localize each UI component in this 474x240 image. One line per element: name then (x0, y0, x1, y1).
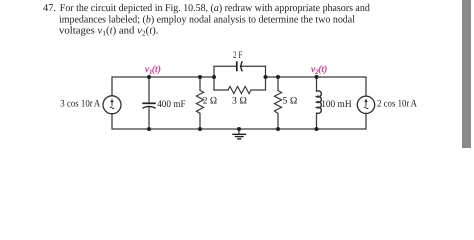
svg-text:2 F: 2 F (233, 50, 243, 61)
current source I2 (2 cos 10t A) (357, 96, 374, 113)
wire top right segment (266, 77, 367, 96)
node dot top of 2 ohm (198, 75, 202, 79)
wire 2-ohm branch (199, 77, 201, 129)
node dot bottom 2 ohm (198, 127, 202, 131)
svg-text:3 Ω: 3 Ω (232, 96, 248, 107)
wire top left segment (112, 77, 214, 96)
wire bottom rail (112, 113, 366, 129)
node dot ground (237, 127, 241, 131)
svg-text:2 Ω: 2 Ω (203, 96, 218, 107)
node dot bottom 400mF (147, 127, 151, 131)
node dot box left (212, 75, 216, 79)
current source I1 (3 cos 10t A) (103, 96, 121, 114)
gray scrollbar band at right (462, 0, 472, 148)
svg-text:2 cos 10t A: 2 cos 10t A (377, 99, 418, 110)
node dot box right (264, 75, 268, 79)
capacitor C1 400 mF (142, 103, 156, 108)
resistor R1 2 ohm (196, 90, 203, 113)
svg-text:100 mH: 100 mH (321, 99, 351, 110)
node label v2(t) (311, 65, 327, 74)
wire parallel-box left edge (213, 66, 215, 90)
svg-text:5 Ω: 5 Ω (283, 96, 298, 107)
node dot bottom 100mH (315, 127, 319, 131)
svg-text:For the circuit depicted in Fi: For the circuit depicted in Fig. 10.58, … (60, 3, 371, 14)
resistor R3 5 ohm (274, 91, 281, 114)
svg-text:47.: 47. (43, 3, 56, 14)
wire parallel-box top branch (214, 65, 266, 67)
node dot v1 (147, 75, 151, 79)
node dot top of 5 ohm (276, 75, 280, 79)
node label v1(t) (145, 65, 160, 74)
svg-text:impedances labeled; (b) employ: impedances labeled; (b) employ nodal ana… (59, 14, 355, 25)
inductor L1 100 mH (317, 91, 322, 114)
wire parallel-box bottom branch (214, 89, 266, 91)
wire parallel-box right edge (265, 66, 267, 90)
wire 400mF capacitor branch (148, 77, 150, 129)
ground (232, 129, 246, 139)
node dot bottom 5 ohm (276, 127, 280, 131)
wire 5-ohm branch (277, 77, 279, 129)
svg-text:3 cos 10t A: 3 cos 10t A (60, 99, 101, 110)
capacitor C2 2 F (237, 61, 243, 71)
svg-text:400 mF: 400 mF (157, 99, 186, 110)
svg-text:voltages v1(t) and v2(t).: voltages v1(t) and v2(t). (59, 26, 159, 38)
node dot v2 (315, 75, 319, 79)
wire 100mH branch (316, 77, 318, 129)
resistor R2 3 ohm (horizontal) (228, 86, 251, 93)
